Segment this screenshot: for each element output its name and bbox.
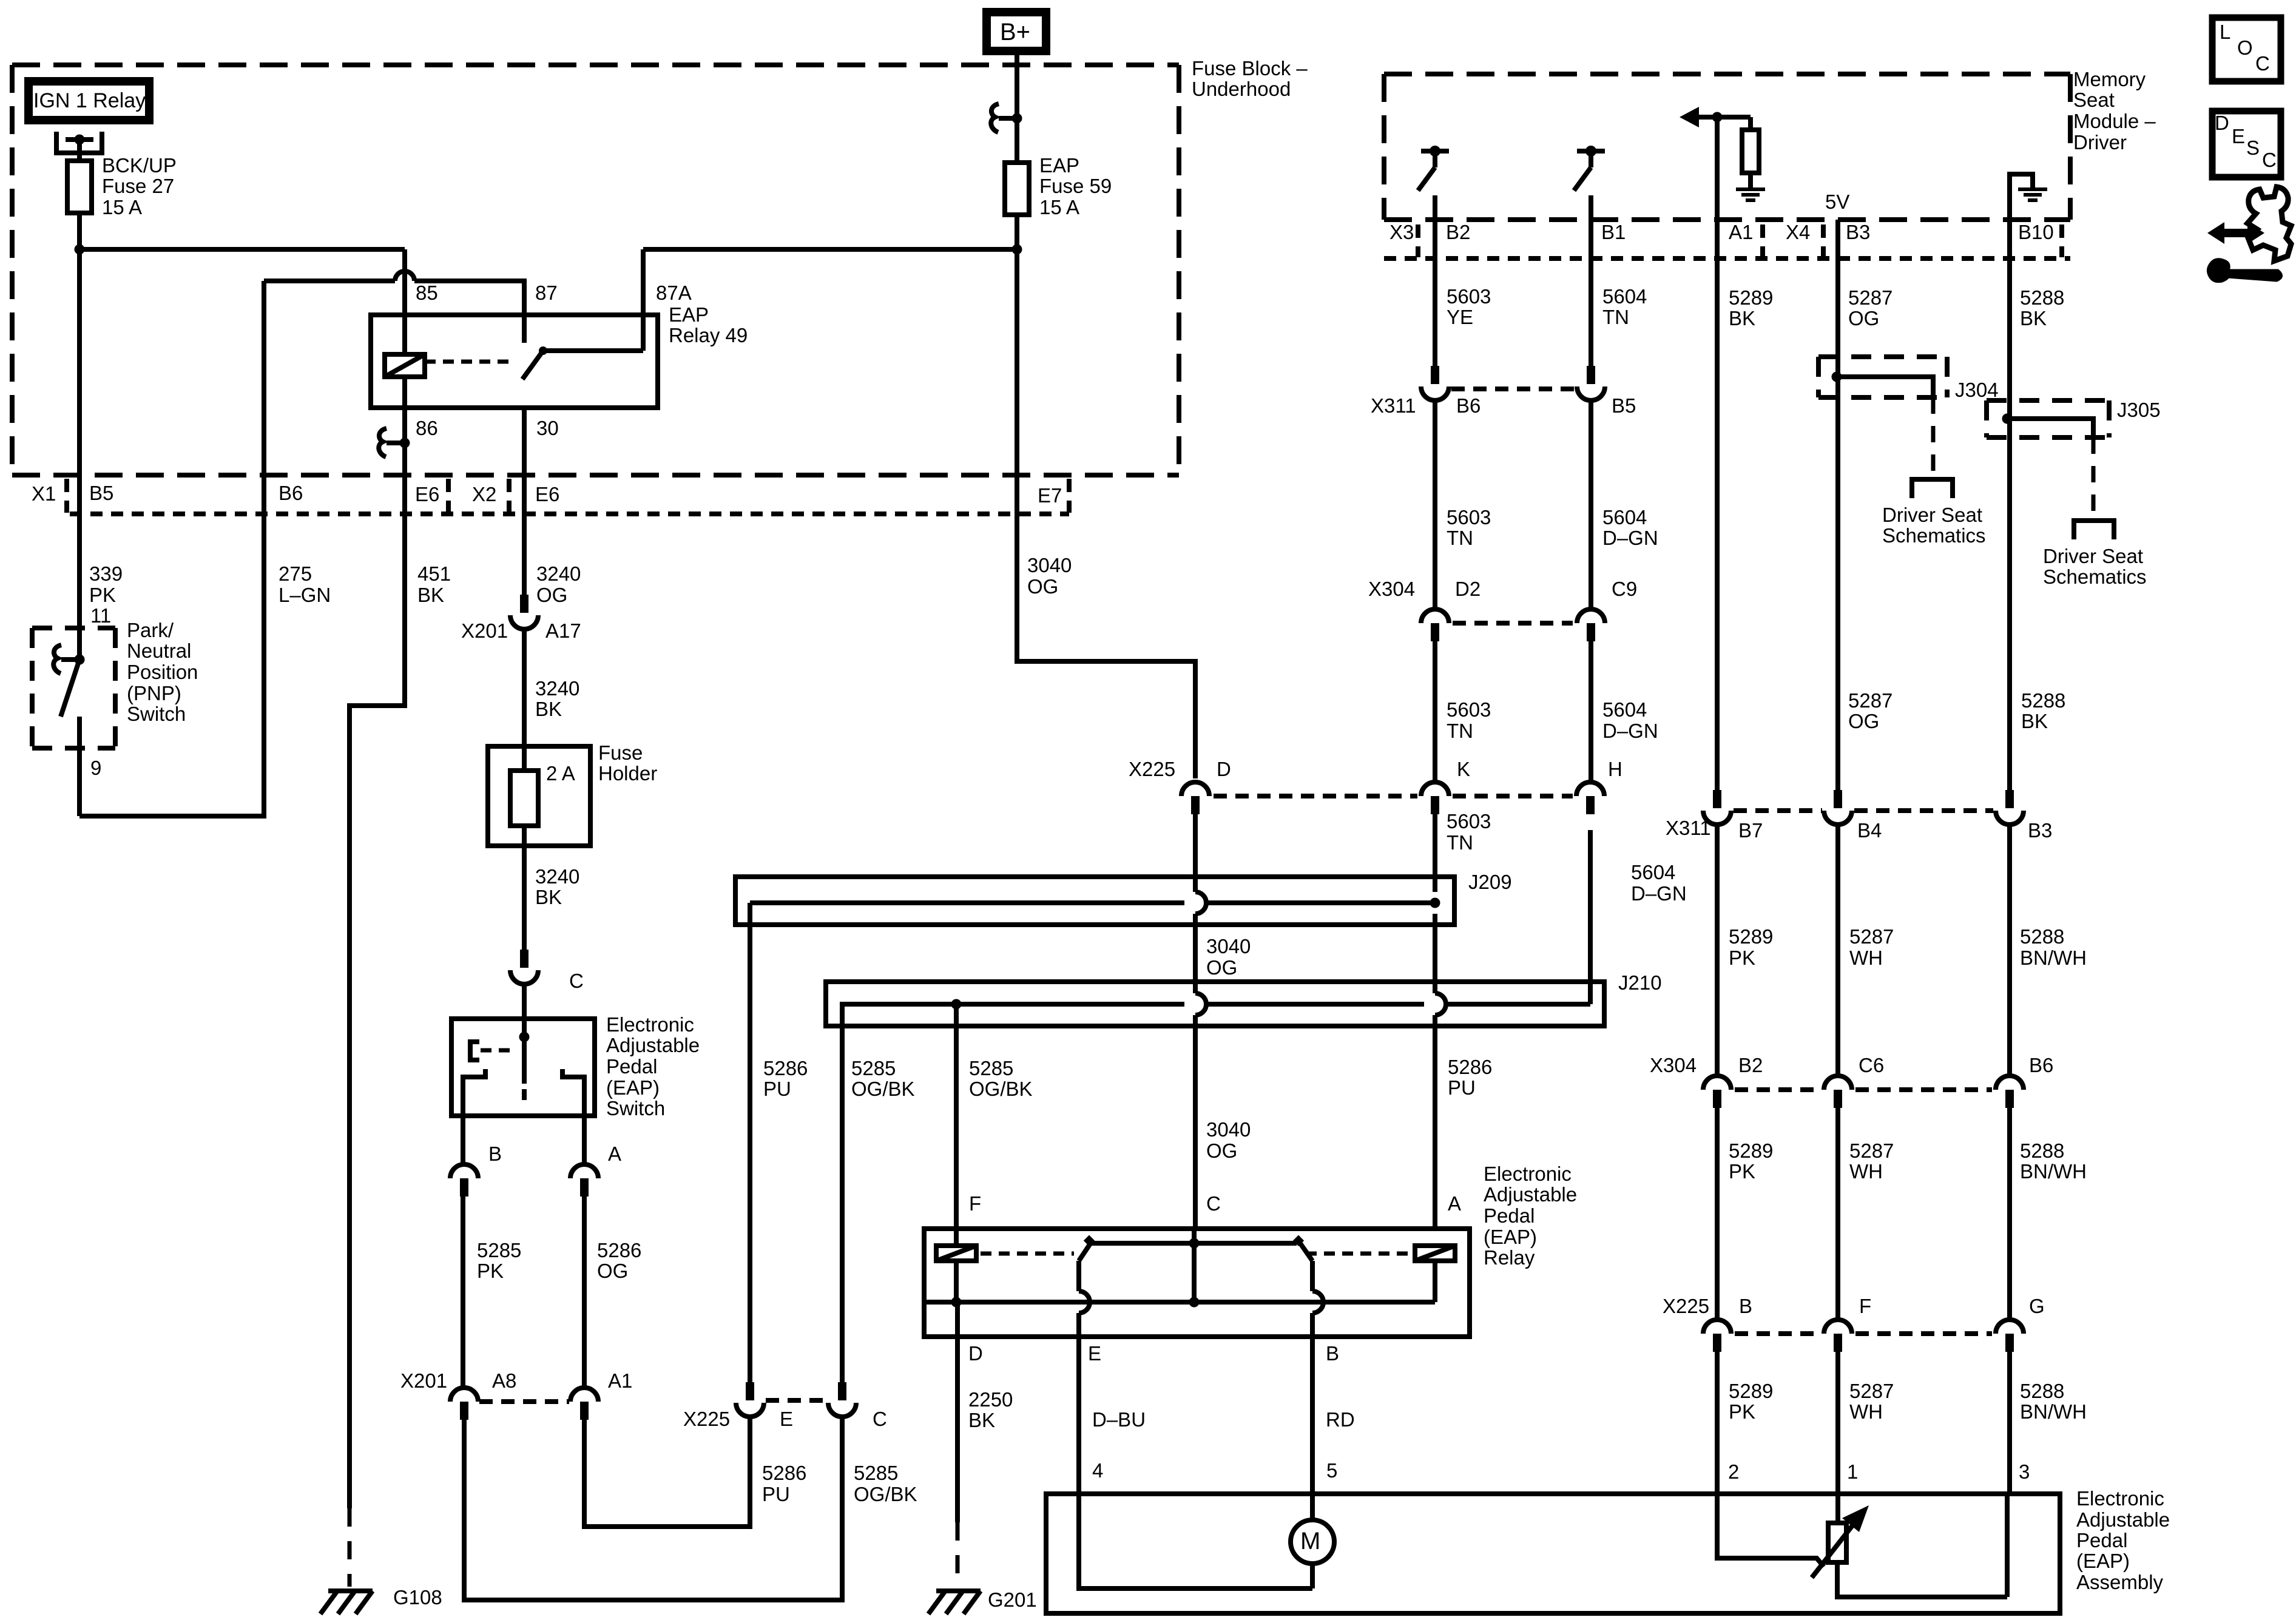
J304 junction dot <box>1832 372 1842 382</box>
EAP switch junction dot <box>519 1032 530 1042</box>
wire 5604 D-GN to H <box>1589 641 1593 782</box>
connector X304 C9 <box>1577 609 1605 623</box>
svg-text:E6: E6 <box>415 483 439 505</box>
separator before X2 <box>446 479 451 513</box>
svg-text:A1: A1 <box>1729 221 1753 243</box>
wire RD to pin 5 <box>1310 1337 1315 1494</box>
svg-text:5287: 5287 <box>1848 286 1893 309</box>
svg-text:D–GN: D–GN <box>1631 882 1687 905</box>
separator after B10 <box>2059 224 2064 257</box>
pin F stub to coil <box>954 1229 959 1246</box>
X3 X4 row bottom dashes <box>1384 256 2070 261</box>
IGN 1 Relay tag box <box>29 81 149 120</box>
EAP Relay 49 box <box>371 315 658 408</box>
svg-text:X304: X304 <box>1650 1054 1697 1076</box>
svg-text:PK: PK <box>89 584 116 606</box>
svg-text:X225: X225 <box>1663 1295 1709 1317</box>
svg-text:A: A <box>608 1143 621 1165</box>
blade E wire hop over rail <box>1079 1291 1090 1313</box>
svg-text:86: 86 <box>416 417 438 439</box>
junction A1 arrow <box>1712 112 1723 123</box>
J210 bus right part <box>1446 1002 1590 1007</box>
svg-text:5289: 5289 <box>1729 286 1773 309</box>
svg-text:E: E <box>780 1408 793 1430</box>
connector X201 A1 <box>570 1388 598 1402</box>
dashed link left coil to blade <box>981 1252 1074 1256</box>
J305 junction dot <box>2002 414 2013 424</box>
wire 5285 PK to X201 A8 <box>461 1197 465 1388</box>
EAP switch common <box>522 1019 527 1084</box>
svg-text:PU: PU <box>762 1483 790 1505</box>
svg-text:5603: 5603 <box>1447 506 1491 528</box>
svg-text:L: L <box>2220 21 2230 43</box>
svg-text:X225: X225 <box>683 1408 730 1430</box>
svg-text:3040: 3040 <box>1206 935 1251 957</box>
connector X311 B3 <box>2005 790 2014 808</box>
svg-text:D–BU: D–BU <box>1092 1408 1146 1431</box>
wire 87A to EAP fuse junction <box>643 247 1017 252</box>
wire A1 to X225 E (5286 PU) <box>584 1417 750 1527</box>
svg-text:5288: 5288 <box>2021 689 2065 712</box>
connector X304 D2 <box>1421 609 1449 623</box>
wire E7 upper segment <box>1015 249 1019 514</box>
svg-text:F: F <box>969 1192 981 1215</box>
svg-text:G108: G108 <box>393 1586 442 1609</box>
wire blade-B lower <box>1310 1313 1315 1337</box>
wire 339 PK upper segment <box>77 249 82 514</box>
svg-text:5603: 5603 <box>1447 285 1491 308</box>
wire hop over pin85 wire <box>395 271 414 281</box>
wire 3240 BK below holder <box>522 846 527 950</box>
wire 5289 PK c <box>1715 1352 1720 1494</box>
svg-text:B3: B3 <box>2028 819 2052 842</box>
svg-text:OG/BK: OG/BK <box>851 1078 915 1100</box>
svg-text:BK: BK <box>417 584 444 606</box>
wire 5286 OG to X201 A1 <box>582 1197 587 1388</box>
wire blade to 87A <box>543 348 643 353</box>
dashed X304 row1 link <box>1453 621 1573 626</box>
svg-text:B2: B2 <box>1446 221 1470 243</box>
blade B wire hop over rail <box>1312 1291 1323 1313</box>
svg-text:275: 275 <box>279 562 312 585</box>
svg-text:A17: A17 <box>545 619 581 642</box>
svg-text:Fuse 59: Fuse 59 <box>1039 175 1112 197</box>
Park/Neutral Position Switch dashed box <box>32 626 115 630</box>
dashed X225 K-H link <box>1453 794 1573 798</box>
wire 5604 D-GN H to J210 bus <box>1588 830 1593 1004</box>
fuse BCK/UP Fuse 27 15A <box>67 161 92 213</box>
ground G108 <box>328 1588 373 1593</box>
svg-text:A: A <box>1448 1192 1461 1215</box>
svg-text:Underhood: Underhood <box>1192 78 1291 100</box>
connector X304 B2 <box>1703 1076 1731 1090</box>
junction rail C <box>1189 1297 1200 1308</box>
wire 5286 PU to relay pin A <box>1433 1015 1437 1229</box>
svg-text:Fuse: Fuse <box>598 741 643 764</box>
connector X311 B5 <box>1587 366 1595 384</box>
wire A1 inside module <box>1715 117 1720 220</box>
svg-text:Electronic: Electronic <box>1484 1163 1572 1185</box>
wire 5288 BN/WH a <box>2007 825 2012 1076</box>
svg-text:3040: 3040 <box>1206 1118 1251 1141</box>
svg-text:OG: OG <box>1848 710 1879 732</box>
svg-text:5603: 5603 <box>1447 698 1491 721</box>
svg-text:D: D <box>1217 758 1231 780</box>
svg-text:Relay: Relay <box>1484 1246 1535 1269</box>
connector X225 G <box>1996 1320 2024 1334</box>
junction rail F/D <box>951 1297 962 1308</box>
J209 bus left part <box>750 900 1184 905</box>
svg-text:3040: 3040 <box>1027 554 1072 576</box>
svg-text:C: C <box>2262 149 2277 171</box>
svg-text:3: 3 <box>2019 1460 2030 1483</box>
separator X4 left <box>1760 224 1765 257</box>
wire 5604 TN <box>1589 220 1593 366</box>
svg-text:15 A: 15 A <box>1039 196 1079 218</box>
connector X304 C6 <box>1824 1076 1852 1090</box>
svg-text:Neutral: Neutral <box>127 640 191 662</box>
svg-text:BN/WH: BN/WH <box>2020 1400 2087 1423</box>
wire B10 to internal ground <box>2010 174 2033 220</box>
svg-text:5287: 5287 <box>1849 1380 1894 1402</box>
wire C to EAP switch <box>522 984 527 1019</box>
wire 5288 BK to X311 B3 <box>2007 220 2012 790</box>
wire 2250 BK <box>955 1337 960 1522</box>
svg-text:TN: TN <box>1447 831 1473 854</box>
svg-text:B1: B1 <box>1601 221 1626 243</box>
wire 5285 OG/BK from J210 left end <box>840 1004 845 1382</box>
svg-text:B6: B6 <box>2029 1054 2053 1076</box>
svg-text:Relay 49: Relay 49 <box>669 324 748 346</box>
splice pack J209 box <box>735 877 1454 925</box>
svg-text:5288: 5288 <box>2020 1139 2064 1162</box>
wire 3040 OG to relay pin C <box>1193 1015 1198 1229</box>
connector X225 D <box>1181 782 1209 796</box>
svg-text:5289: 5289 <box>1729 1139 1773 1162</box>
wire 3040 OG into J209 <box>1193 814 1198 892</box>
dashed X225 row2 link a <box>1735 1331 1820 1336</box>
svg-text:WH: WH <box>1849 947 1883 969</box>
svg-text:339: 339 <box>89 562 123 585</box>
svg-text:BK: BK <box>535 886 562 908</box>
svg-text:BK: BK <box>535 698 562 720</box>
wire pin1 to sensor <box>1835 1494 1840 1523</box>
svg-text:5287: 5287 <box>1849 1139 1894 1162</box>
wire 5288 BN/WH b <box>2007 1108 2012 1320</box>
wire right coil to rail <box>1433 1261 1437 1302</box>
Electronic Adjustable Pedal (EAP) Switch box <box>451 1019 595 1116</box>
connector C (in-line) <box>520 950 528 968</box>
svg-text:1: 1 <box>1847 1460 1858 1483</box>
svg-text:X304: X304 <box>1368 578 1415 600</box>
wire EAP switch pin B <box>461 1116 465 1164</box>
svg-text:Schematics: Schematics <box>2043 565 2147 588</box>
wire arrow to resistor <box>1699 115 1751 120</box>
wire 5604 D-GN col <box>1589 400 1593 609</box>
svg-text:Pedal: Pedal <box>606 1055 657 1078</box>
wire 3040 OG J209 to J210 <box>1193 914 1198 993</box>
dashed segment to G201 <box>956 1522 960 1587</box>
svg-text:X2: X2 <box>472 483 496 505</box>
svg-text:5604: 5604 <box>1602 506 1647 528</box>
wire 5289 PK b <box>1715 1108 1720 1320</box>
svg-text:BK: BK <box>2021 710 2048 732</box>
fuse 2A inside holder <box>510 771 538 826</box>
svg-text:C: C <box>873 1408 887 1430</box>
wire 3240 OG to X201 A17 <box>522 514 527 595</box>
clip terminal on 86 wire <box>387 441 405 445</box>
wire motor bottom <box>1310 1564 1315 1588</box>
clip terminal on B+ wire <box>999 116 1017 121</box>
J304 branch <box>1837 377 1933 396</box>
svg-text:C6: C6 <box>1859 1054 1884 1076</box>
svg-text:PK: PK <box>1729 1400 1755 1423</box>
svg-text:4: 4 <box>1092 1459 1103 1482</box>
wire 5603 TN to K <box>1433 641 1437 782</box>
adjust icon: double arrow and wrenches <box>2247 187 2291 261</box>
splice J305 dashed box <box>1987 398 2109 403</box>
EAP switch left contact bracket <box>463 1069 485 1116</box>
wire IGN1 relay to Fuse 27 <box>77 140 82 159</box>
wire pin 30 down (3240 OG) <box>522 408 527 514</box>
svg-text:E: E <box>1088 1342 1101 1365</box>
svg-text:Fuse Block –: Fuse Block – <box>1192 57 1308 79</box>
svg-text:Adjustable: Adjustable <box>1484 1183 1577 1206</box>
svg-text:B10: B10 <box>2018 221 2054 243</box>
module switch B1 <box>1577 149 1605 154</box>
EAP relay left coil <box>936 1246 976 1261</box>
svg-text:C: C <box>2255 52 2270 75</box>
svg-text:D2: D2 <box>1455 578 1481 600</box>
wire 5285 OG/BK to relay pin F <box>954 1004 959 1229</box>
wire coil to bottom rail <box>954 1261 959 1302</box>
wire blade-E lower <box>1076 1313 1081 1337</box>
wire blade-B upper <box>1310 1261 1315 1291</box>
svg-text:BK: BK <box>1729 307 1755 329</box>
svg-text:C9: C9 <box>1612 578 1637 600</box>
svg-text:WH: WH <box>1849 1160 1883 1183</box>
connector X201 A17 <box>520 595 528 613</box>
svg-text:3240: 3240 <box>536 562 581 585</box>
wire pin85 stub to coil <box>402 315 407 354</box>
wire B+ down to Fuse 59 <box>1015 55 1019 161</box>
svg-text:TN: TN <box>1447 720 1473 742</box>
svg-text:5: 5 <box>1326 1459 1337 1482</box>
svg-text:87: 87 <box>535 282 558 304</box>
svg-text:9: 9 <box>90 757 101 779</box>
connector X225 H <box>1576 782 1604 796</box>
pin 87 stub inside relay <box>522 315 527 343</box>
wire 5288 BN/WH c <box>2007 1352 2012 1494</box>
dashed X225 D-K link <box>1214 794 1417 798</box>
wire to relay pin 87 <box>414 281 524 315</box>
wire 5603 TN into J209 <box>1433 814 1437 892</box>
svg-text:D: D <box>2215 112 2229 134</box>
connector X201 A8 <box>450 1388 478 1402</box>
svg-text:B5: B5 <box>89 482 113 504</box>
connector X225 C <box>838 1382 846 1400</box>
wire junction to relay pin 85 <box>79 247 405 252</box>
svg-text:J305: J305 <box>2117 399 2161 421</box>
wire dashed segment to G108 <box>348 1508 352 1587</box>
wire Fuse 27 to junction <box>77 215 82 249</box>
svg-text:BN/WH: BN/WH <box>2020 1160 2087 1183</box>
fuse clip terminal under IGN 1 Relay <box>56 132 102 153</box>
connector X225 E <box>746 1382 754 1400</box>
module internal ground (resistor) <box>1736 187 1765 191</box>
wire B2 out of module <box>1433 195 1437 220</box>
wire PNP pin 9 down <box>77 717 82 816</box>
svg-text:5287: 5287 <box>1849 925 1894 948</box>
wire 5603 TN col <box>1433 400 1437 609</box>
wire EAP switch pin A <box>582 1116 587 1164</box>
3040 OG hop over J209 bus <box>1195 892 1206 914</box>
B+ terminal tag box <box>987 12 1046 51</box>
wire 275 L-GN vertical above X1 row <box>262 281 266 514</box>
svg-text:BN/WH: BN/WH <box>2020 947 2087 969</box>
continuation stub J304 <box>1912 479 1953 498</box>
svg-text:Seat: Seat <box>2073 89 2115 111</box>
Electronic Adjustable Pedal (EAP) Assembly box <box>1046 1494 2060 1613</box>
svg-text:2250: 2250 <box>968 1388 1013 1411</box>
EAP switch E-bracket <box>470 1042 479 1060</box>
svg-text:5289: 5289 <box>1729 1380 1773 1402</box>
J209 bus right part <box>1206 900 1435 905</box>
continuation stub J305 <box>2074 521 2114 539</box>
svg-text:D–GN: D–GN <box>1602 720 1658 742</box>
EAP switch moving contact <box>522 1089 527 1100</box>
svg-text:PK: PK <box>477 1260 504 1282</box>
svg-text:TN: TN <box>1602 306 1629 328</box>
wire C to bottom rail <box>1192 1243 1197 1302</box>
wire 5603 YE <box>1433 220 1437 366</box>
svg-text:B: B <box>1326 1342 1339 1365</box>
svg-text:Fuse 27: Fuse 27 <box>102 175 174 197</box>
wire pin2 to wiper <box>1717 1494 1824 1567</box>
svg-text:TN: TN <box>1447 527 1473 549</box>
svg-text:2: 2 <box>1728 1460 1739 1483</box>
wire B1 out of module <box>1589 195 1593 220</box>
connector X225 K <box>1421 782 1449 796</box>
svg-text:OG: OG <box>1206 1139 1237 1162</box>
svg-text:5288: 5288 <box>2020 1380 2064 1402</box>
connector X225 F <box>1824 1320 1852 1334</box>
relay coil EAP Relay 49 <box>385 354 425 377</box>
separator after E7 <box>1067 479 1072 513</box>
svg-text:Switch: Switch <box>127 703 186 725</box>
dashed X304 row2 link b <box>1855 1087 1992 1092</box>
svg-text:A1: A1 <box>608 1369 632 1392</box>
svg-text:S: S <box>2246 137 2260 159</box>
svg-text:Electronic: Electronic <box>606 1013 694 1036</box>
EAP switch right contact bracket <box>562 1069 584 1116</box>
connector X225 B <box>1703 1320 1731 1334</box>
svg-text:BK: BK <box>2020 307 2047 329</box>
separator X1 <box>64 479 69 513</box>
junction below Fuse 27 <box>75 245 85 255</box>
EAP relay bottom rail <box>924 1300 1435 1305</box>
svg-text:G201: G201 <box>988 1588 1037 1611</box>
module internal arrow <box>1680 107 1699 127</box>
X1 X2 connector row <box>70 511 1069 516</box>
dashed X311 row2 link b <box>1854 808 1993 813</box>
svg-text:X1: X1 <box>32 482 56 505</box>
J304 branch dashed <box>1931 397 1936 477</box>
relay actuation dashed link <box>425 360 513 364</box>
svg-text:5286: 5286 <box>597 1239 641 1261</box>
svg-text:(EAP): (EAP) <box>2076 1550 2130 1572</box>
svg-text:15 A: 15 A <box>102 196 142 218</box>
Fuse Block - Underhood dashed box <box>12 62 1179 67</box>
svg-text:Switch: Switch <box>606 1097 665 1119</box>
pin D inside segment <box>955 1302 960 1337</box>
svg-text:E: E <box>2232 125 2245 147</box>
wire 3240 BK to fuse holder <box>522 629 527 771</box>
svg-text:B4: B4 <box>1857 819 1882 842</box>
wire pin 86 down (451 BK) <box>402 408 407 514</box>
EAP relay right coil <box>1415 1246 1455 1261</box>
svg-text:OG/BK: OG/BK <box>969 1078 1033 1100</box>
J209 bus junction dot <box>1430 898 1440 908</box>
svg-text:J210: J210 <box>1618 971 1662 994</box>
connector A (in-line) <box>570 1164 598 1178</box>
svg-text:X3: X3 <box>1389 221 1414 243</box>
svg-text:A8: A8 <box>492 1369 516 1392</box>
svg-text:OG/BK: OG/BK <box>854 1483 917 1505</box>
junction 87A / E7 <box>1012 245 1022 255</box>
dashed X304 row2 link a <box>1735 1087 1820 1092</box>
wire pin3 inside assembly <box>2005 1494 2010 1597</box>
svg-text:Adjustable: Adjustable <box>2076 1508 2170 1531</box>
wire D-BU to pin 4 <box>1076 1337 1081 1494</box>
connector X304 B6 <box>1996 1076 2024 1090</box>
svg-text:Schematics: Schematics <box>1882 524 1986 547</box>
separator X4 right <box>1821 224 1826 257</box>
svg-text:5286: 5286 <box>763 1057 808 1079</box>
splice pack J210 box <box>826 982 1604 1026</box>
connector B (in-line) <box>450 1164 478 1178</box>
svg-text:5603: 5603 <box>1447 810 1491 832</box>
wire 87A vertical <box>641 249 646 351</box>
relay switch blade <box>539 346 547 355</box>
PNP contact dot <box>75 655 85 665</box>
wire pin 9 to B6 (275 L-GN) <box>79 514 264 816</box>
svg-text:B2: B2 <box>1738 1054 1763 1076</box>
separator after X2 <box>507 479 512 513</box>
svg-text:G: G <box>2029 1295 2045 1317</box>
wire 339 PK to PNP switch <box>77 514 82 660</box>
connector X311 B4 <box>1834 790 1842 808</box>
svg-text:Electronic: Electronic <box>2076 1487 2164 1510</box>
svg-text:(PNP): (PNP) <box>127 682 181 704</box>
3040 OG hop over J210 bus <box>1195 993 1206 1015</box>
svg-text:5286: 5286 <box>1448 1056 1492 1078</box>
svg-text:5285: 5285 <box>477 1239 521 1261</box>
svg-text:RD: RD <box>1326 1408 1355 1431</box>
svg-text:5288: 5288 <box>2020 286 2064 309</box>
svg-text:Pedal: Pedal <box>1484 1204 1535 1227</box>
wire Fuse 59 to junction <box>1015 217 1019 249</box>
svg-text:O: O <box>2237 36 2253 59</box>
ground G201 <box>936 1588 981 1593</box>
wire pin4 motor loop <box>1079 1494 1312 1588</box>
svg-text:(EAP): (EAP) <box>606 1076 660 1099</box>
svg-text:Holder: Holder <box>598 762 657 785</box>
dashed X225 row2 link b <box>1855 1331 1992 1336</box>
LOC reference box <box>2212 18 2281 81</box>
5286 PU hop over J210 bus <box>1435 993 1446 1015</box>
splice J304 dashed box <box>1818 354 1947 359</box>
